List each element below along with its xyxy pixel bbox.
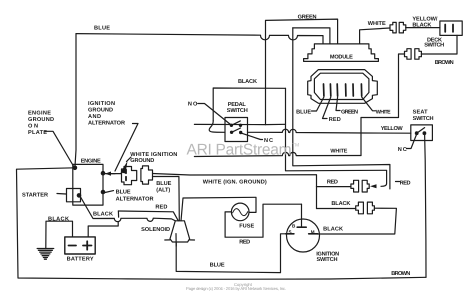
svg-text:BROWN: BROWN bbox=[391, 271, 410, 277]
module pin 2 bbox=[329, 84, 331, 96]
svg-text:WHITE (IGN. GROUND): WHITE (IGN. GROUND) bbox=[203, 179, 267, 186]
wire S to solenoid blue bbox=[176, 234, 286, 273]
svg-text:WHITE: WHITE bbox=[368, 21, 386, 27]
svg-text:AND: AND bbox=[88, 114, 101, 120]
svg-text:WHITE: WHITE bbox=[376, 110, 391, 116]
wire blue alt down to solenoid bbox=[153, 177, 180, 221]
seat switch blade bbox=[417, 128, 425, 134]
pedal blade NO bbox=[231, 121, 240, 125]
deck switch prong 2 bbox=[452, 25, 454, 32]
wire YELLOW pedal NC to seat switch with hops bbox=[248, 129, 411, 133]
leader ignition ground and alternator with arrow bbox=[107, 124, 138, 174]
svg-text:RED: RED bbox=[239, 240, 250, 246]
node seat switch left bbox=[415, 131, 419, 135]
svg-text:BATTERY: BATTERY bbox=[67, 257, 94, 263]
svg-text:SWITCH: SWITCH bbox=[227, 108, 248, 114]
svg-text:ENGINE: ENGINE bbox=[81, 159, 101, 165]
svg-text:S: S bbox=[289, 230, 292, 235]
svg-text:BLACK: BLACK bbox=[331, 201, 350, 207]
deck switch box bbox=[440, 21, 462, 35]
svg-text:RED: RED bbox=[327, 179, 338, 185]
arrowhead at engine terminal bbox=[105, 172, 111, 176]
connector red left half bbox=[351, 180, 359, 192]
svg-text:BLUE: BLUE bbox=[296, 110, 311, 116]
svg-text:GREEN: GREEN bbox=[298, 15, 317, 21]
svg-text:SOLENOID: SOLENOID bbox=[141, 227, 170, 233]
fuse circle bbox=[231, 203, 249, 221]
svg-text:PLATE: PLATE bbox=[28, 130, 47, 136]
wire connector to deck switch bbox=[406, 27, 440, 29]
node engine ignition ground bbox=[101, 171, 106, 176]
wire pedal upper rail bbox=[194, 123, 285, 125]
wire blue left vertical to engine bbox=[75, 34, 76, 168]
battery plus bbox=[83, 241, 92, 249]
svg-text:SWITCH: SWITCH bbox=[413, 116, 434, 122]
solenoid foot right bbox=[190, 239, 195, 241]
wire GREEN 1 bbox=[266, 19, 338, 125]
wire WHITE module to deck connector bbox=[360, 28, 390, 44]
ignition M bar bbox=[309, 233, 318, 235]
svg-text:BLACK: BLACK bbox=[93, 212, 113, 218]
connector alternator left half bbox=[122, 167, 137, 185]
outer harness loop left bbox=[17, 168, 427, 279]
pedal switch box bbox=[225, 118, 248, 142]
leader green pin bbox=[336, 97, 340, 111]
fuse top lead to solenoid bbox=[181, 197, 256, 221]
solenoid foot left bbox=[165, 239, 170, 241]
ignition B wire bbox=[301, 204, 303, 227]
wire black connector to ignition M bbox=[318, 208, 397, 234]
solenoid body bbox=[170, 221, 190, 242]
wire white ign ground long horizontal bbox=[153, 174, 317, 209]
svg-text:GROUND: GROUND bbox=[130, 158, 154, 164]
wire red branch to connector bbox=[317, 186, 351, 188]
node engine ground dot bbox=[73, 166, 78, 171]
ignition switch circle bbox=[287, 219, 320, 252]
connector black left half bbox=[356, 202, 364, 214]
svg-text:BROWN: BROWN bbox=[435, 60, 454, 66]
connector alternator right half bbox=[141, 166, 153, 184]
leader red pin bbox=[323, 97, 331, 119]
wire starter black-red to solenoid with dips bbox=[79, 195, 175, 222]
battery minus bbox=[69, 245, 77, 247]
ignition S bar bbox=[286, 233, 294, 235]
pedal contact NC dots bbox=[230, 131, 233, 134]
leader seat NC bbox=[407, 135, 417, 149]
svg-text:BLACK: BLACK bbox=[323, 226, 343, 232]
svg-text:GROUND: GROUND bbox=[28, 117, 54, 123]
svg-text:SWITCH: SWITCH bbox=[424, 43, 444, 49]
wire fuse branch vertical bbox=[117, 211, 119, 217]
svg-text:ALTERNATOR: ALTERNATOR bbox=[88, 121, 125, 127]
seat switch box bbox=[411, 125, 433, 141]
battery box bbox=[65, 237, 95, 254]
svg-text:TM: TM bbox=[292, 143, 299, 149]
wire pedal left jog bbox=[209, 121, 225, 133]
svg-text:M: M bbox=[311, 230, 315, 235]
connector black right half bbox=[367, 202, 374, 214]
starter box bbox=[67, 189, 81, 202]
connector red right half bbox=[362, 180, 369, 192]
node starter bbox=[77, 193, 82, 198]
connector brown left half bbox=[405, 49, 412, 60]
connector brown right half bbox=[415, 49, 422, 60]
wire BLUE top horizontal with hops bbox=[76, 34, 323, 44]
leader white ignition ground arrow bbox=[127, 157, 132, 162]
leader pedal NO bbox=[198, 104, 231, 125]
svg-text:RED: RED bbox=[400, 181, 411, 187]
svg-text:RED: RED bbox=[329, 117, 341, 123]
wire vertical V2 green2 drop bbox=[293, 28, 390, 189]
connector alternator left pins bbox=[125, 170, 127, 181]
pedal switch loop black bbox=[213, 88, 285, 121]
svg-text:Page design (c) 2004 - 2016 by: Page design (c) 2004 - 2016 by ARI Netwo… bbox=[186, 286, 286, 291]
connector deck white left half bbox=[390, 22, 396, 33]
node engine alternator bbox=[101, 190, 106, 195]
svg-text:FUSE: FUSE bbox=[239, 223, 254, 229]
leader white pin bbox=[362, 97, 376, 111]
module pin 1 bbox=[323, 84, 325, 96]
svg-text:GREEN: GREEN bbox=[341, 110, 358, 116]
svg-text:ARI PartStream: ARI PartStream bbox=[187, 142, 292, 159]
svg-text:IGNITION: IGNITION bbox=[88, 101, 115, 107]
wire battery plus to solenoid bbox=[88, 222, 118, 237]
svg-text:GROUND: GROUND bbox=[88, 108, 113, 114]
wire red junction to solenoid apex bbox=[118, 211, 178, 221]
svg-text:BLUE: BLUE bbox=[94, 26, 110, 32]
svg-text:WHITE IGNITION: WHITE IGNITION bbox=[130, 152, 177, 158]
svg-text:RED: RED bbox=[155, 205, 167, 211]
leader blue pin bbox=[312, 97, 324, 111]
svg-text:SWITCH: SWITCH bbox=[317, 257, 338, 263]
wire engine to alternator plug bbox=[103, 173, 122, 175]
wire WHITE ign-ground horizontal to deck route with hops bbox=[194, 152, 361, 156]
wire BROWN deck switch down to connector bbox=[421, 35, 457, 54]
solenoid plunger bbox=[175, 234, 177, 246]
module pin 5 bbox=[352, 84, 354, 96]
svg-text:NO: NO bbox=[188, 102, 198, 108]
ignition B bar bbox=[297, 226, 306, 228]
node seat switch right bbox=[423, 131, 427, 135]
leader red label right bbox=[396, 181, 400, 183]
connector deck white right half bbox=[399, 22, 406, 33]
leader pedal NC bbox=[242, 133, 263, 139]
pedal blade NC bbox=[232, 128, 241, 132]
pedal contact NO dots bbox=[230, 124, 233, 127]
module body steps bbox=[304, 44, 379, 62]
svg-text:ALTERNATOR: ALTERNATOR bbox=[116, 196, 154, 202]
wire GREEN 2 bbox=[293, 28, 330, 44]
wire vertical V1e pedal loop right down bbox=[286, 88, 387, 186]
module connector outer shell bbox=[308, 70, 378, 104]
module pin 6 bbox=[360, 84, 362, 96]
svg-text:YELLOW: YELLOW bbox=[381, 126, 404, 132]
svg-text:YELLOW/: YELLOW/ bbox=[412, 15, 437, 22]
svg-text:BLACK: BLACK bbox=[48, 217, 69, 223]
arrowhead red connector bbox=[370, 184, 377, 188]
wire red fuse loop to ignition B bbox=[225, 204, 301, 237]
leader starter bbox=[57, 193, 66, 196]
svg-text:SEAT: SEAT bbox=[413, 110, 429, 116]
svg-text:MODULE: MODULE bbox=[330, 54, 353, 60]
engine box bbox=[73, 164, 103, 205]
svg-text:STARTER: STARTER bbox=[22, 193, 48, 199]
fuse sine symbol bbox=[233, 209, 248, 216]
svg-text:ENGINE: ENGINE bbox=[28, 111, 51, 117]
wire black branch to connector bbox=[317, 208, 356, 210]
svg-text:ON: ON bbox=[28, 124, 38, 130]
svg-text:BLUE: BLUE bbox=[116, 190, 131, 196]
svg-text:BLUE: BLUE bbox=[156, 181, 171, 187]
svg-text:WHITE: WHITE bbox=[330, 149, 347, 155]
wire BROWN seat switch down right side to bottom bus bbox=[425, 134, 426, 277]
module pin 4 bbox=[345, 84, 347, 96]
wire brown connector left to white wire bbox=[361, 54, 405, 156]
svg-text:BLUE: BLUE bbox=[210, 262, 225, 268]
svg-text:NC: NC bbox=[398, 147, 407, 153]
module connector inner shell bbox=[314, 73, 369, 99]
ground symbol bbox=[37, 249, 54, 260]
leader blue alternator bbox=[105, 191, 114, 193]
module pin 3 bbox=[336, 84, 338, 96]
leader engine ground on plate bbox=[45, 131, 74, 167]
svg-text:BLACK: BLACK bbox=[412, 22, 431, 28]
deck switch prong 1 bbox=[444, 25, 446, 32]
svg-text:(ALT): (ALT) bbox=[156, 186, 170, 193]
svg-text:BLACK: BLACK bbox=[238, 79, 257, 85]
wire BLACK battery negative to ground bbox=[46, 221, 73, 248]
